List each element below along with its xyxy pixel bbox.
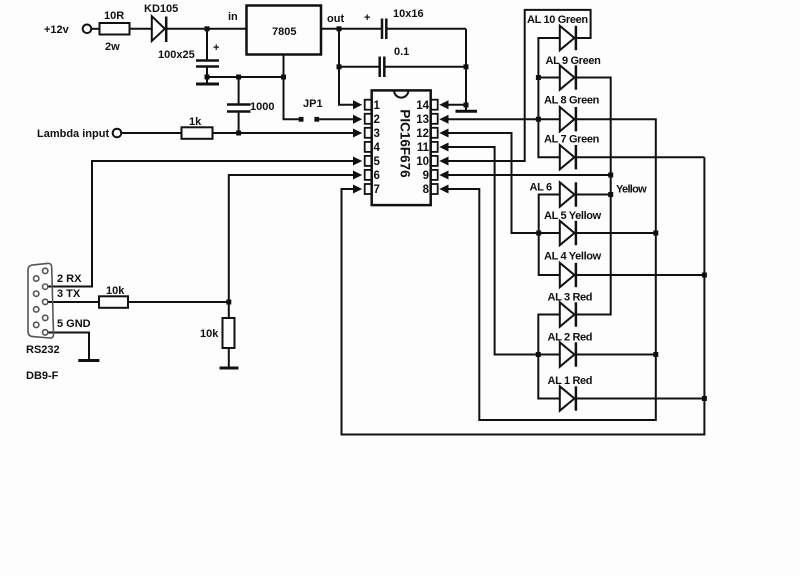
node gnd rail left <box>205 75 210 80</box>
wire green anode bus <box>538 38 559 157</box>
LED chain <box>560 26 576 411</box>
svg-text:4: 4 <box>374 142 381 154</box>
pin 14 box <box>431 100 438 110</box>
svg-text:AL 4 Yellow: AL 4 Yellow <box>544 251 602 263</box>
wire AL5 cathode <box>576 232 655 234</box>
svg-text:10: 10 <box>416 156 429 168</box>
svg-text:AL 9 Green: AL 9 Green <box>546 55 602 67</box>
wire 7805 gnd lead <box>284 55 300 120</box>
LED AL2 <box>560 342 575 366</box>
LED AL10 <box>560 26 575 50</box>
wire divider to R4 <box>228 302 230 318</box>
svg-text:1k: 1k <box>189 116 202 128</box>
wire DB9 gnd <box>47 333 89 361</box>
node 0.1 left <box>337 64 342 69</box>
arrow into pin 10 <box>439 157 448 166</box>
ground at DB9 <box>78 359 99 362</box>
terminal +12v <box>83 25 92 34</box>
svg-text:AL 3 Red: AL 3 Red <box>548 292 593 304</box>
svg-text:PIC16F676: PIC16F676 <box>398 109 413 178</box>
svg-text:1000: 1000 <box>250 101 274 113</box>
node bus963 pin9 <box>608 173 613 178</box>
svg-text:Yellow: Yellow <box>616 184 647 196</box>
node input junction <box>205 26 210 31</box>
svg-text:RS232: RS232 <box>26 344 60 356</box>
wire C2 top lead <box>238 77 240 104</box>
svg-text:2w: 2w <box>105 41 120 53</box>
arrow into pin 5 <box>353 157 362 166</box>
wire pin5 from RX <box>47 161 354 287</box>
svg-text:12: 12 <box>416 128 429 140</box>
wire pin7 cathode bus <box>342 157 705 434</box>
wire +12v to R1 <box>91 28 99 30</box>
svg-text:13: 13 <box>416 114 429 126</box>
svg-text:AL 8 Green: AL 8 Green <box>544 95 600 107</box>
svg-text:AL 5 Yellow: AL 5 Yellow <box>544 210 602 222</box>
diode D1 KD105 <box>152 16 165 41</box>
LED AL7 <box>560 145 575 169</box>
wire pin14 to gnd node <box>446 104 466 106</box>
svg-text:2: 2 <box>374 114 380 126</box>
resistor R4 10k <box>223 318 235 348</box>
svg-text:3 TX: 3 TX <box>57 288 81 300</box>
resistor R3 10k <box>99 296 128 308</box>
LED AL4 <box>560 263 575 287</box>
arrow into pin 14 <box>439 100 448 109</box>
node red bus AL2 <box>536 352 541 357</box>
node lambda C2 junction <box>236 131 241 136</box>
jumper JP1 <box>299 117 304 122</box>
svg-text:10R: 10R <box>104 10 124 22</box>
wire right riser down <box>465 29 467 105</box>
svg-text:9: 9 <box>423 170 429 182</box>
arrow into pin 8 <box>439 185 448 194</box>
wire pin10 to AL10 cathode loop <box>446 10 591 161</box>
svg-text:14: 14 <box>416 100 429 112</box>
arrow into pin 9 <box>439 171 448 180</box>
regulator U2 7805 <box>247 6 322 55</box>
pin 4 box <box>365 142 372 152</box>
LED AL6 <box>560 182 575 206</box>
svg-text:DB9-F: DB9-F <box>26 370 59 382</box>
pin 5 box <box>365 156 372 166</box>
svg-text:Lambda input: Lambda input <box>37 128 109 140</box>
wire AL1 cathode <box>576 398 704 400</box>
node bus963 AL6 <box>608 192 613 197</box>
svg-text:+: + <box>213 42 219 54</box>
wire pin11 to red anode bus <box>446 147 560 355</box>
terminal lambda input <box>113 129 122 138</box>
wire pin9 to cathode bus 963 <box>446 174 611 176</box>
pin 1 box <box>365 100 372 110</box>
pin 6 box <box>365 170 372 180</box>
pin 2 box <box>365 114 372 124</box>
LED AL3 <box>560 302 575 326</box>
ground at pin14 <box>465 105 467 111</box>
svg-text:in: in <box>228 11 238 23</box>
wire R3 to divider node <box>128 301 229 303</box>
svg-text:+12v: +12v <box>44 24 70 36</box>
pin 7 box <box>365 184 372 194</box>
pin 12 box <box>431 128 438 138</box>
wire AL2 cathode <box>576 354 655 356</box>
wire pin13 to green anode bus <box>446 118 560 120</box>
svg-text:5 GND: 5 GND <box>57 318 91 330</box>
wire AL6 cathode <box>576 194 610 196</box>
op IC U1 PIC16F676 <box>365 90 438 205</box>
wire lambda to R2 <box>121 132 181 134</box>
svg-text:1: 1 <box>374 100 381 112</box>
pin 10 box <box>431 156 438 166</box>
svg-text:AL 7 Green: AL 7 Green <box>544 134 600 146</box>
wire R4 to ground <box>228 348 230 368</box>
arrow into pin 3 <box>353 129 362 138</box>
svg-text:AL 2 Red: AL 2 Red <box>548 332 593 344</box>
node bus852 AL5 <box>653 231 658 236</box>
svg-text:+: + <box>364 12 370 24</box>
wire 0.1 rail right <box>384 66 466 68</box>
wire AL9 anode <box>538 77 559 79</box>
svg-text:out: out <box>327 13 344 25</box>
wire R1 to D1 <box>130 28 152 30</box>
node bus741 AL4 <box>702 273 707 278</box>
svg-text:2 RX: 2 RX <box>57 273 82 285</box>
svg-text:0.1: 0.1 <box>394 46 409 58</box>
wire yellow anode bus <box>539 195 560 276</box>
node bus852 AL2 <box>653 352 658 357</box>
pin 13 box <box>431 114 438 124</box>
LED AL5 <box>560 221 575 245</box>
node bus741 AL1 <box>702 396 707 401</box>
wire D1 to 7805 in <box>166 28 246 30</box>
wire vdd riser <box>339 29 354 105</box>
wire pin6 from TX divider <box>229 175 354 302</box>
node C2 top <box>236 75 241 80</box>
node out junction <box>337 26 342 31</box>
LED AL8 <box>560 107 575 131</box>
wire C3 to right riser <box>386 28 466 30</box>
capacitor C3 10x16 <box>381 19 384 40</box>
svg-text:10x16: 10x16 <box>393 8 424 20</box>
node pin14 gnd <box>464 103 469 108</box>
connector J1 RS232 DB9-F <box>28 263 54 338</box>
node green bus AL9 <box>536 75 541 80</box>
svg-text:JP1: JP1 <box>303 98 323 110</box>
wire JP1 to pin2 <box>319 118 353 120</box>
node divider <box>226 300 231 305</box>
svg-text:8: 8 <box>423 184 430 196</box>
svg-text:6: 6 <box>374 170 380 182</box>
wire cathode bus 963 <box>576 78 610 315</box>
svg-text:AL 1 Red: AL 1 Red <box>548 375 593 387</box>
resistor R1 10R <box>100 23 130 35</box>
svg-text:3: 3 <box>374 128 380 140</box>
ground under C1 <box>206 77 208 84</box>
wire 7805 out rail <box>321 28 382 30</box>
svg-text:11: 11 <box>417 142 430 154</box>
svg-text:AL 10 Green: AL 10 Green <box>527 14 588 26</box>
arrow into pin 6 <box>353 171 362 180</box>
svg-text:5: 5 <box>374 156 381 168</box>
node yellow bus AL5 <box>536 231 541 236</box>
LED AL9 <box>560 65 575 89</box>
arrow into pin 11 <box>439 143 448 152</box>
wire TX to R3 <box>47 301 99 303</box>
arrow into pin 2 <box>353 115 362 124</box>
svg-text:AL 6: AL 6 <box>530 182 552 194</box>
pin 8 box <box>431 184 438 194</box>
LED AL1 <box>560 386 575 410</box>
node 7805 gnd <box>281 75 286 80</box>
pin 11 box <box>431 142 438 152</box>
pin 9 box <box>431 170 438 180</box>
wire R2 to pin3 <box>213 132 354 134</box>
capacitor C4 0.1 <box>378 57 381 78</box>
svg-text:7805: 7805 <box>272 26 296 38</box>
svg-text:7: 7 <box>374 184 380 196</box>
svg-text:KD105: KD105 <box>144 3 178 15</box>
ground under R4 <box>220 367 239 370</box>
svg-text:10k: 10k <box>200 328 219 340</box>
arrow into pin 1 <box>353 100 362 109</box>
wire C2 bottom lead <box>238 112 240 134</box>
wire red anode bus <box>538 315 560 399</box>
capacitor C2 1000 <box>227 103 251 106</box>
wire AL4 cathode <box>576 274 704 276</box>
svg-text:100x25: 100x25 <box>158 49 195 61</box>
node 0.1 right <box>464 64 469 69</box>
arrow into pin 7 <box>353 185 362 194</box>
wire AL7 cathode <box>576 156 704 158</box>
arrow into pin 12 <box>439 129 448 138</box>
wire junction to C1 <box>206 29 208 60</box>
resistor R2 1k <box>182 127 213 139</box>
wire 0.1 rail left <box>339 66 380 68</box>
pin 3 box <box>365 128 372 138</box>
wire pin12 to yellow anode bus <box>446 133 560 233</box>
capacitor C1 100x25 <box>196 59 219 62</box>
node green bus pin13 <box>536 117 541 122</box>
arrow into pin 13 <box>439 115 448 124</box>
wire gnd rail <box>207 76 284 78</box>
wire pin8 to cathode bus 852 <box>446 119 656 420</box>
wire C1 to gnd rail <box>206 67 208 78</box>
svg-text:10k: 10k <box>106 285 125 297</box>
